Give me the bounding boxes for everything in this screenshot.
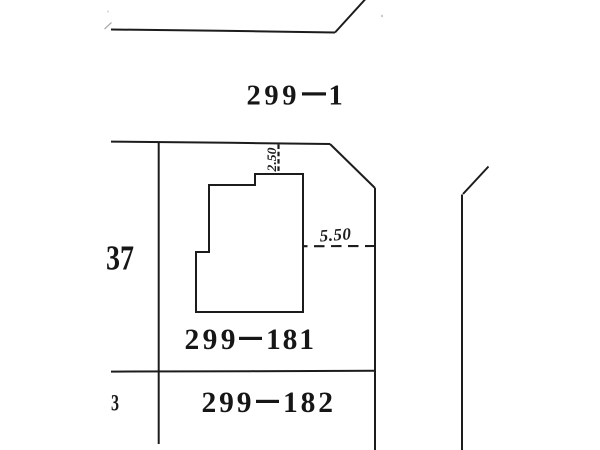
boundary line: east edge of parcels 299-181/182 (vertical) xyxy=(374,188,376,450)
boundary line: parcel 299-181 corner cut (diagonal) xyxy=(330,144,375,188)
svg-text:37: 37 xyxy=(106,239,134,278)
svg-text:299: 299 xyxy=(202,387,252,419)
faint scan speck top right xyxy=(381,15,383,17)
svg-text:3: 3 xyxy=(111,391,119,416)
boundary line: east neighbouring parcel (vertical) xyxy=(461,195,463,450)
building outline on parcel 299-181 xyxy=(196,174,303,312)
svg-text:299: 299 xyxy=(247,81,297,112)
dimension line: 5.50 (horizontal dashed) xyxy=(304,245,376,247)
svg-text:299: 299 xyxy=(185,324,236,356)
parcel number label 299-1 dash xyxy=(302,92,326,95)
svg-text:182: 182 xyxy=(283,387,333,419)
boundary line: north parcel edge (horizontal) xyxy=(111,30,335,33)
boundary line: north parcel edge (diagonal up-right) xyxy=(335,0,366,33)
dimension line: 2.50 (vertical dashed) xyxy=(277,145,279,174)
svg-text:181: 181 xyxy=(266,324,314,356)
parcel number label 299-181 dash xyxy=(239,337,262,340)
boundary line: west edge of parcels 299-181/182 (vertical) xyxy=(158,142,160,444)
faint scan speck above line start xyxy=(107,11,109,13)
svg-text:2.50: 2.50 xyxy=(265,147,279,173)
svg-text:5.50: 5.50 xyxy=(319,224,352,245)
parcel number label 299-182 dash xyxy=(256,400,279,403)
svg-text:1: 1 xyxy=(329,81,343,112)
boundary line: east neighbouring parcel (diagonal) xyxy=(463,167,489,195)
boundary line: top edge of parcel 299-181 (horizontal) xyxy=(111,142,330,144)
tick mark at west end of north boundary xyxy=(105,23,112,30)
boundary line: between parcel 299-181 and 299-182 (horizontal) xyxy=(111,370,375,373)
